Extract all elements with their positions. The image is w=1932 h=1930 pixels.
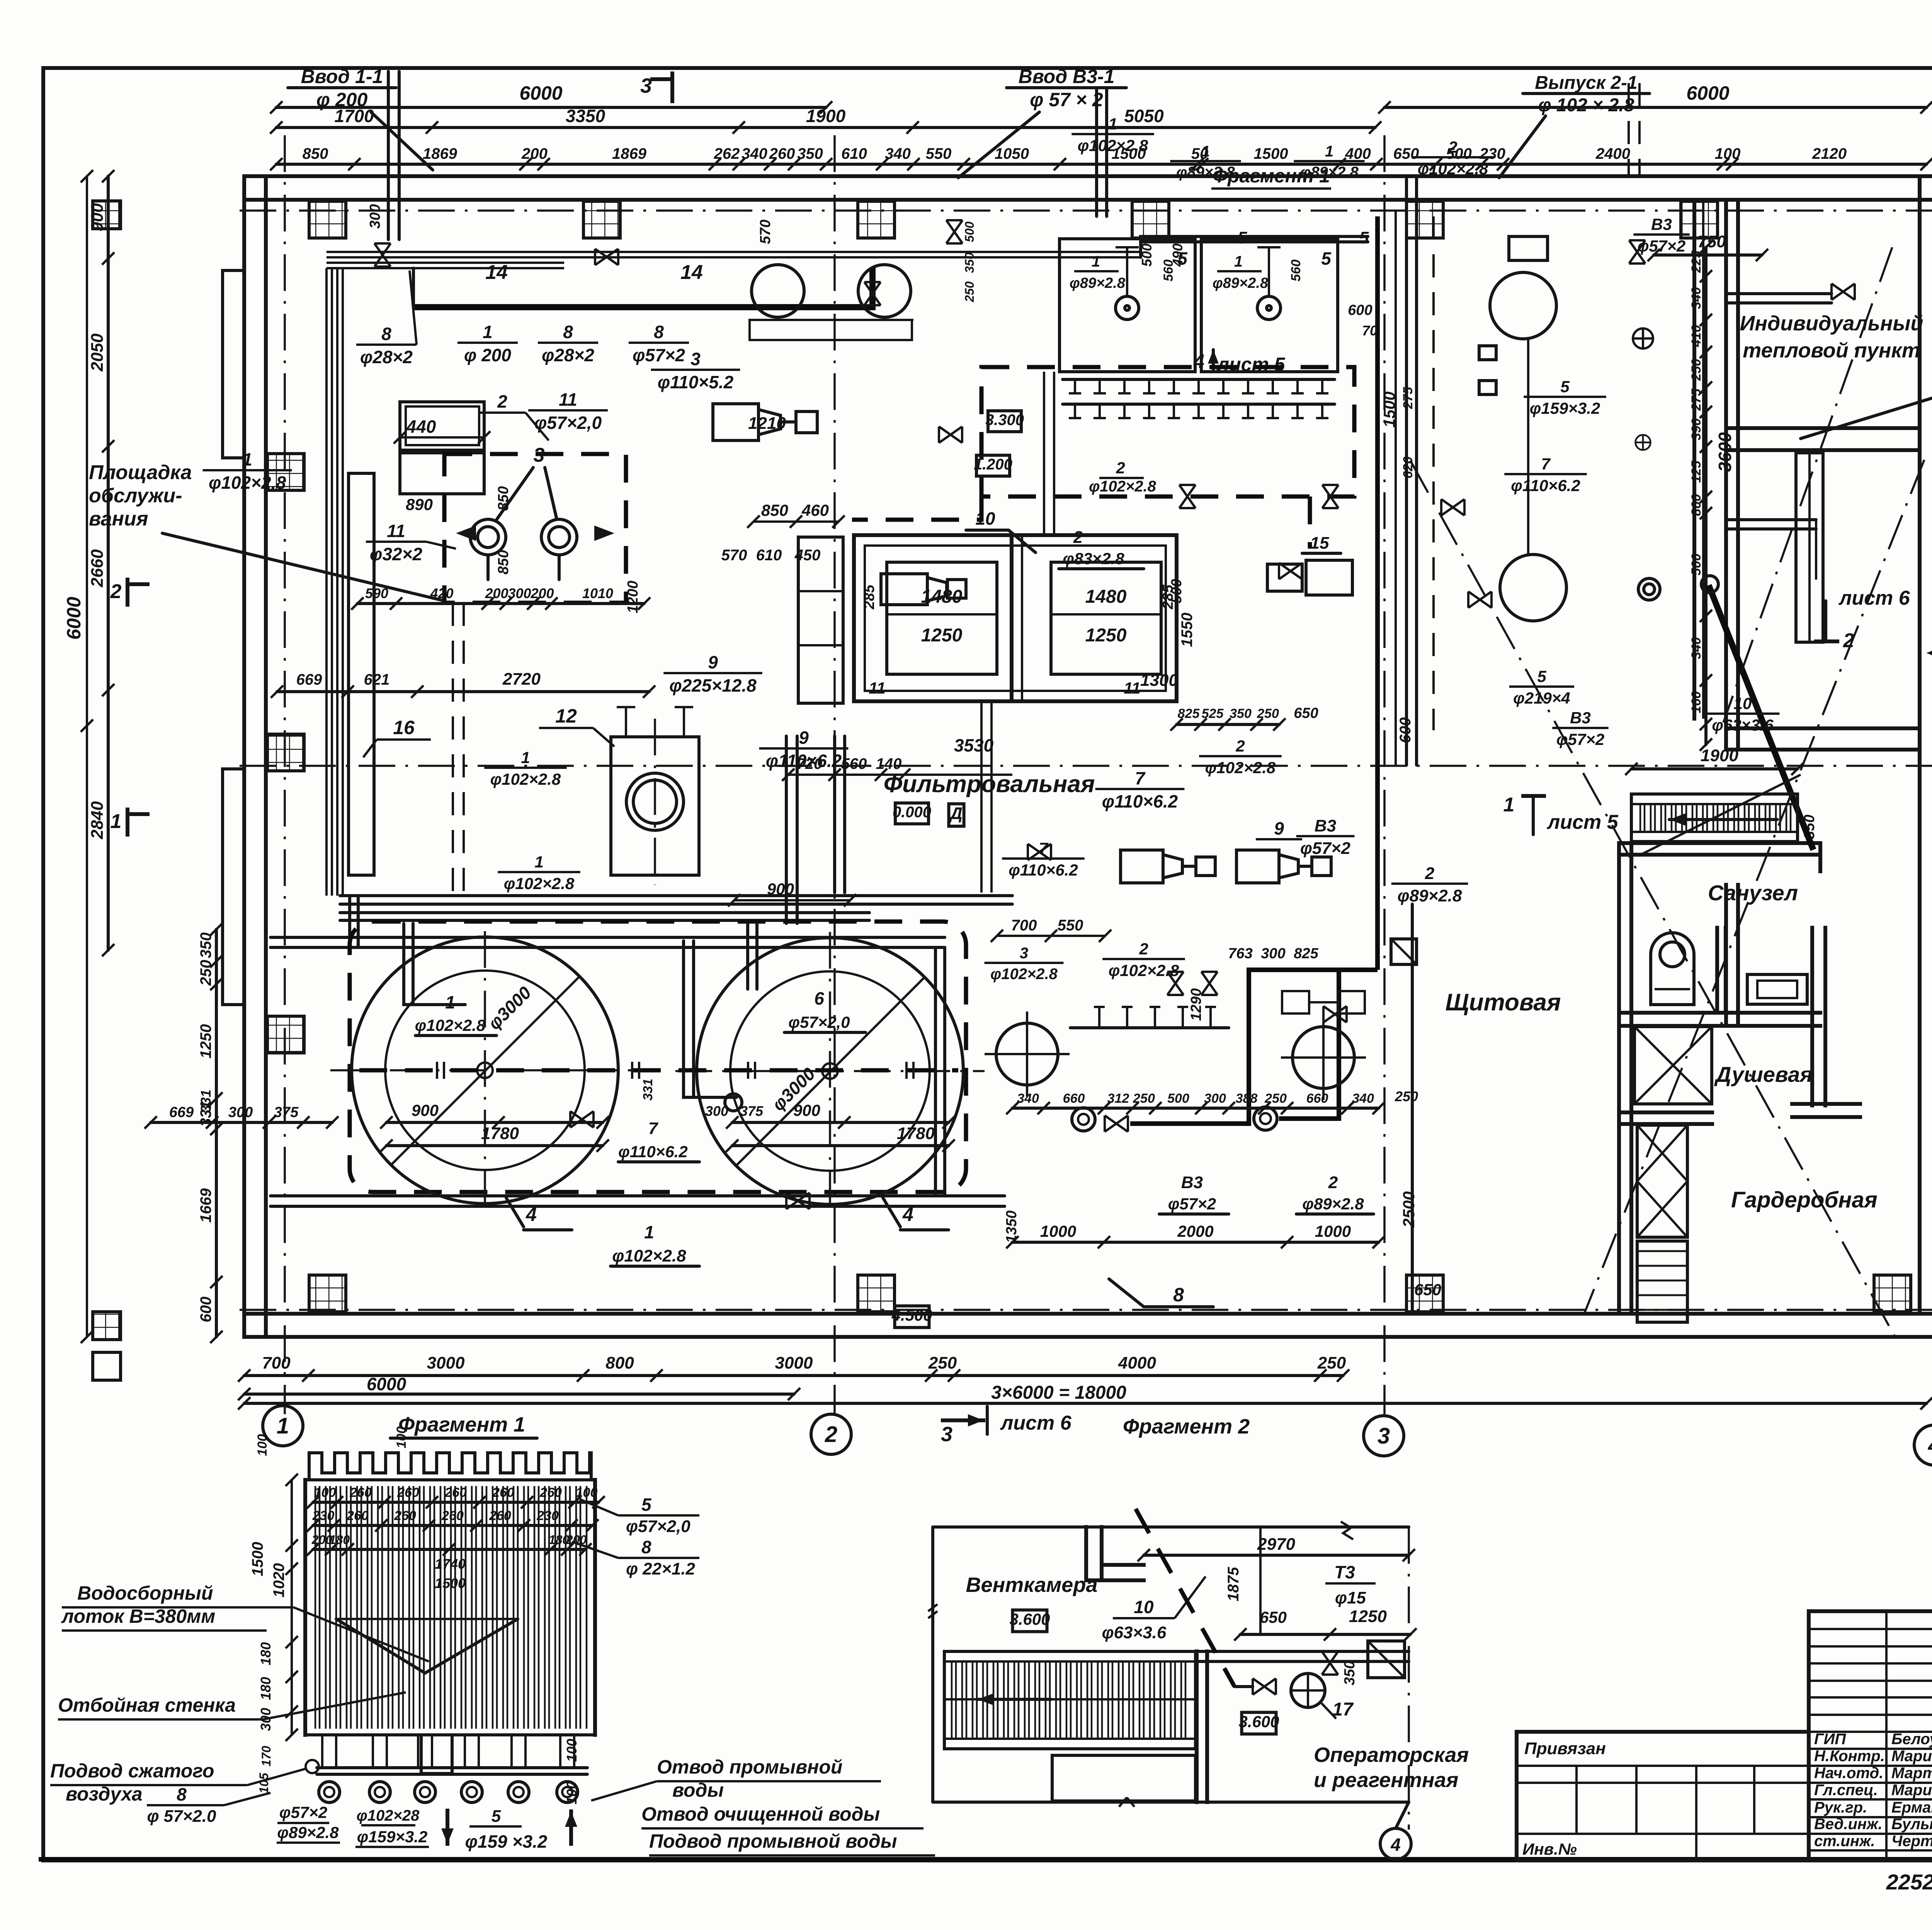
svg-text:φ159×3.2: φ159×3.2: [1530, 399, 1600, 417]
svg-text:669: 669: [169, 1104, 194, 1121]
svg-text:φ159×3.2: φ159×3.2: [357, 1828, 428, 1846]
svg-text:2000: 2000: [1177, 1222, 1213, 1240]
svg-text:22529-02: 22529-02: [1886, 1870, 1932, 1894]
svg-text:340: 340: [1352, 1091, 1374, 1106]
svg-text:5: 5: [1537, 667, 1546, 685]
svg-text:Д: Д: [949, 804, 963, 823]
svg-text:1669: 1669: [197, 1188, 214, 1223]
svg-text:5: 5: [1560, 377, 1570, 396]
svg-text:10: 10: [1134, 1597, 1154, 1617]
svg-text:Ввод 1-1: Ввод 1-1: [301, 66, 383, 87]
svg-text:φ83×2.8: φ83×2.8: [1063, 549, 1124, 568]
svg-text:1: 1: [445, 992, 455, 1012]
svg-text:5050: 5050: [1124, 106, 1164, 126]
svg-text:1550: 1550: [1179, 613, 1196, 647]
svg-text:410: 410: [1689, 325, 1704, 347]
svg-text:260: 260: [444, 1485, 467, 1500]
svg-text:8: 8: [563, 322, 573, 342]
svg-text:φ102×2.8: φ102×2.8: [209, 473, 286, 493]
svg-text:180: 180: [329, 1533, 350, 1547]
svg-text:650: 650: [1260, 1608, 1287, 1626]
svg-text:φ159 ×3.2: φ159 ×3.2: [465, 1831, 548, 1852]
svg-text:Н.Контр.: Н.Контр.: [1814, 1748, 1885, 1765]
svg-text:Душевая: Душевая: [1714, 1062, 1813, 1087]
svg-text:7: 7: [1541, 455, 1551, 473]
svg-text:650: 650: [1414, 1280, 1441, 1299]
svg-text:φ102×2.8: φ102×2.8: [1089, 478, 1156, 495]
svg-text:Отвод очищенной воды: Отвод очищенной воды: [641, 1803, 880, 1825]
svg-text:и реагентная: и реагентная: [1314, 1768, 1458, 1792]
svg-text:11: 11: [869, 679, 886, 697]
svg-text:100: 100: [564, 1781, 580, 1804]
svg-text:Ввод В3-1: Ввод В3-1: [1019, 66, 1115, 87]
svg-text:610: 610: [841, 145, 867, 162]
svg-text:70: 70: [1362, 323, 1378, 338]
svg-text:100: 100: [1715, 145, 1741, 162]
svg-text:5: 5: [641, 1495, 652, 1515]
svg-text:3530: 3530: [954, 735, 994, 755]
svg-text:Операторская: Операторская: [1314, 1743, 1469, 1767]
svg-text:590: 590: [365, 585, 388, 601]
svg-text:φ225×12.8: φ225×12.8: [669, 675, 757, 695]
svg-text:262: 262: [714, 145, 740, 162]
svg-text:лист 6: лист 6: [1000, 1412, 1072, 1434]
svg-text:200: 200: [530, 585, 554, 601]
svg-text:Белоус: Белоус: [1891, 1731, 1932, 1748]
svg-text:1500: 1500: [1254, 145, 1288, 162]
svg-text:230: 230: [312, 1508, 335, 1523]
svg-text:φ110×5.2: φ110×5.2: [658, 372, 734, 392]
svg-text:2970: 2970: [1257, 1535, 1295, 1554]
svg-text:φ28×2: φ28×2: [360, 347, 413, 367]
svg-text:560: 560: [1289, 260, 1303, 282]
svg-text:Отбойная стенка: Отбойная стенка: [58, 1694, 236, 1716]
svg-text:260: 260: [394, 1508, 416, 1523]
svg-text:7: 7: [648, 1119, 659, 1138]
svg-text:600: 600: [1348, 302, 1372, 318]
svg-text:φ57×2: φ57×2: [1300, 839, 1351, 858]
svg-text:300: 300: [367, 204, 383, 228]
svg-text:1: 1: [277, 1413, 289, 1439]
svg-text:1210: 1210: [748, 414, 786, 433]
svg-text:500: 500: [1689, 554, 1704, 576]
svg-text:3350: 3350: [566, 106, 605, 126]
svg-text:525: 525: [1202, 706, 1224, 721]
svg-text:воды: воды: [672, 1779, 724, 1801]
svg-text:180: 180: [258, 1642, 274, 1665]
svg-text:331: 331: [641, 1079, 655, 1101]
svg-text:1480: 1480: [1085, 587, 1127, 607]
svg-text:3.300: 3.300: [985, 412, 1024, 429]
svg-text:6: 6: [814, 988, 824, 1008]
svg-text:ст.инж.: ст.инж.: [1814, 1833, 1875, 1850]
svg-text:φ 102 × 2.8: φ 102 × 2.8: [1538, 95, 1634, 116]
svg-text:340: 340: [885, 145, 911, 162]
svg-text:250: 250: [928, 1354, 957, 1372]
svg-text:720: 720: [797, 755, 823, 772]
svg-text:8: 8: [641, 1537, 651, 1557]
svg-text:φ57×2: φ57×2: [1168, 1195, 1216, 1213]
svg-text:вания: вания: [89, 508, 148, 530]
svg-text:800: 800: [605, 1354, 634, 1372]
svg-text:6000: 6000: [519, 82, 562, 104]
svg-text:890: 890: [406, 495, 433, 514]
svg-text:Ермакова: Ермакова: [1891, 1799, 1932, 1816]
svg-text:2660: 2660: [88, 549, 107, 587]
svg-text:4.500: 4.500: [891, 1306, 932, 1324]
svg-text:2: 2: [1116, 459, 1125, 477]
svg-text:2: 2: [1235, 737, 1245, 755]
svg-text:8: 8: [381, 324, 391, 344]
svg-text:Подвод сжатого: Подвод сжатого: [50, 1760, 214, 1782]
svg-text:100: 100: [564, 1739, 580, 1762]
svg-text:φ15: φ15: [1335, 1588, 1366, 1607]
svg-text:300: 300: [228, 1104, 253, 1121]
svg-text:1250: 1250: [1349, 1607, 1387, 1626]
svg-text:5: 5: [1238, 228, 1247, 247]
svg-text:φ32×2: φ32×2: [370, 544, 422, 564]
svg-text:610: 610: [756, 547, 782, 564]
svg-text:850: 850: [495, 486, 512, 510]
svg-text:500: 500: [1167, 1091, 1189, 1106]
svg-text:3: 3: [1378, 1423, 1390, 1449]
svg-text:1: 1: [1092, 253, 1100, 270]
svg-text:4: 4: [902, 1204, 913, 1225]
svg-text:лист 6: лист 6: [1838, 587, 1910, 609]
svg-text:7: 7: [1135, 768, 1146, 788]
svg-text:3: 3: [640, 74, 652, 97]
svg-text:260: 260: [539, 1485, 562, 1500]
svg-text:лоток В=380мм: лоток В=380мм: [61, 1605, 215, 1627]
svg-text:650: 650: [1294, 705, 1318, 721]
svg-text:275: 275: [1689, 388, 1704, 411]
svg-text:Отвод промывной: Отвод промывной: [657, 1756, 842, 1778]
svg-text:1: 1: [242, 449, 252, 469]
svg-text:φ57×2: φ57×2: [633, 345, 685, 365]
svg-text:1: 1: [483, 322, 493, 342]
svg-text:В3: В3: [1651, 215, 1672, 233]
svg-text:900: 900: [767, 880, 794, 898]
svg-text:1: 1: [644, 1222, 654, 1242]
svg-text:440: 440: [406, 417, 436, 437]
svg-text:260: 260: [441, 1508, 464, 1523]
svg-text:φ102×2.8: φ102×2.8: [490, 770, 561, 788]
svg-text:15: 15: [1310, 534, 1329, 553]
svg-text:6000: 6000: [63, 597, 85, 639]
svg-text:8: 8: [654, 322, 664, 342]
svg-text:φ89×2.8: φ89×2.8: [1300, 164, 1359, 181]
svg-text:обслужи-: обслужи-: [89, 485, 182, 507]
svg-text:Т3: Т3: [1334, 1562, 1355, 1582]
svg-text:3: 3: [941, 1423, 952, 1446]
svg-text:800: 800: [1689, 494, 1704, 516]
svg-text:φ 22×1.2: φ 22×1.2: [626, 1559, 696, 1578]
svg-text:1: 1: [534, 853, 543, 871]
svg-text:331: 331: [198, 1090, 214, 1113]
svg-text:φ219×4: φ219×4: [1513, 689, 1570, 707]
svg-text:4: 4: [1390, 1835, 1401, 1855]
svg-text:180: 180: [258, 1677, 274, 1700]
svg-text:250: 250: [1317, 1354, 1346, 1372]
svg-text:1480: 1480: [921, 587, 963, 607]
svg-text:6000: 6000: [367, 1374, 406, 1394]
svg-text:669: 669: [296, 671, 322, 688]
svg-text:700: 700: [262, 1354, 291, 1372]
svg-text:1: 1: [1325, 143, 1333, 160]
svg-text:φ 57 × 2: φ 57 × 2: [1030, 89, 1103, 111]
svg-text:825: 825: [1294, 945, 1318, 962]
svg-text:Фрагмент 2: Фрагмент 2: [1123, 1415, 1250, 1438]
svg-text:5: 5: [492, 1807, 501, 1826]
svg-text:1869: 1869: [423, 145, 457, 162]
svg-text:11: 11: [559, 389, 577, 410]
svg-text:550: 550: [1058, 917, 1083, 934]
svg-text:4000: 4000: [1118, 1354, 1156, 1372]
svg-text:3: 3: [534, 444, 545, 466]
svg-text:φ110×6.2: φ110×6.2: [1102, 791, 1178, 811]
svg-text:φ63×3.6: φ63×3.6: [1712, 716, 1774, 734]
svg-text:В3: В3: [1181, 1173, 1203, 1192]
svg-text:1: 1: [521, 748, 530, 767]
svg-text:500: 500: [963, 221, 976, 242]
svg-text:1500: 1500: [435, 1575, 466, 1591]
svg-text:3.600: 3.600: [1238, 1712, 1279, 1731]
svg-text:5: 5: [1177, 248, 1188, 269]
svg-text:100: 100: [255, 1434, 270, 1456]
svg-text:φ89×2.8: φ89×2.8: [1398, 886, 1462, 905]
svg-text:φ102×2.8: φ102×2.8: [1109, 961, 1179, 979]
svg-text:300: 300: [1261, 945, 1285, 962]
svg-text:φ102×2.8: φ102×2.8: [1418, 160, 1488, 178]
svg-text:300: 300: [705, 1103, 728, 1119]
svg-text:1350: 1350: [1003, 1211, 1020, 1243]
svg-text:1875: 1875: [1225, 1567, 1242, 1602]
svg-text:φ102×2.8: φ102×2.8: [504, 874, 575, 893]
svg-text:570: 570: [721, 547, 747, 564]
svg-text:2720: 2720: [502, 670, 541, 689]
svg-text:230: 230: [536, 1508, 559, 1523]
svg-text:Индивидуальный: Индивидуальный: [1740, 312, 1923, 335]
svg-text:Мартынов: Мартынов: [1891, 1765, 1932, 1782]
svg-text:1290: 1290: [1188, 988, 1204, 1021]
svg-text:260: 260: [397, 1485, 419, 1500]
svg-text:4: 4: [526, 1204, 537, 1225]
svg-text:100: 100: [576, 1485, 598, 1500]
svg-text:2: 2: [1328, 1173, 1338, 1192]
svg-text:2840: 2840: [88, 801, 107, 839]
svg-text:2: 2: [1448, 138, 1457, 156]
svg-text:350: 350: [963, 252, 976, 273]
svg-text:Гл.спец.: Гл.спец.: [1814, 1782, 1878, 1799]
svg-text:Выпуск 2-1: Выпуск 2-1: [1535, 73, 1637, 93]
svg-text:φ102×2.8: φ102×2.8: [612, 1246, 686, 1265]
svg-text:Привязан: Привязан: [1524, 1739, 1606, 1758]
svg-text:φ57×2,0: φ57×2,0: [534, 413, 602, 433]
svg-text:100: 100: [394, 1427, 409, 1449]
svg-text:2: 2: [497, 391, 507, 412]
svg-text:Фрагмент 1: Фрагмент 1: [398, 1413, 525, 1436]
svg-text:1700: 1700: [334, 106, 374, 126]
svg-text:850: 850: [761, 501, 788, 519]
svg-text:340: 340: [1017, 1091, 1039, 1106]
svg-text:1: 1: [1503, 794, 1515, 816]
svg-text:6000: 6000: [1686, 82, 1729, 104]
svg-text:388: 388: [1236, 1091, 1258, 1106]
svg-text:340: 340: [742, 145, 767, 162]
svg-text:2: 2: [110, 580, 122, 603]
svg-text:600: 600: [197, 1297, 214, 1323]
svg-text:Булычева: Булычева: [1891, 1816, 1932, 1833]
svg-text:φ57×2: φ57×2: [279, 1803, 327, 1821]
svg-text:1780: 1780: [897, 1124, 935, 1143]
svg-text:16: 16: [393, 717, 415, 738]
svg-text:3: 3: [690, 349, 701, 369]
svg-text:350: 350: [1342, 1661, 1358, 1685]
svg-text:Щитовая: Щитовая: [1446, 989, 1561, 1016]
svg-text:2500: 2500: [1400, 1191, 1418, 1228]
svg-text:2050: 2050: [88, 333, 107, 372]
svg-text:φ102×2.8: φ102×2.8: [1205, 758, 1276, 777]
svg-text:1250: 1250: [1085, 625, 1127, 646]
svg-text:В3: В3: [1315, 816, 1336, 835]
svg-text:14: 14: [485, 261, 508, 284]
svg-text:650: 650: [1393, 145, 1419, 162]
svg-text:620: 620: [1401, 457, 1415, 479]
svg-text:260: 260: [492, 1485, 514, 1500]
svg-text:0.000: 0.000: [893, 804, 931, 821]
svg-text:2120: 2120: [1812, 145, 1847, 162]
svg-text:Подвод промывной воды: Подвод промывной воды: [649, 1830, 897, 1852]
svg-text:Вед.инж.: Вед.инж.: [1814, 1816, 1883, 1833]
svg-text:5: 5: [1321, 248, 1332, 269]
svg-text:390: 390: [1689, 418, 1704, 440]
svg-text:φ57×2: φ57×2: [1556, 730, 1604, 748]
svg-text:φ 200: φ 200: [464, 345, 511, 365]
svg-text:φ102×28: φ102×28: [357, 1807, 420, 1824]
svg-text:1: 1: [1201, 143, 1210, 160]
svg-text:420: 420: [430, 585, 453, 601]
svg-text:φ 57×2.0: φ 57×2.0: [147, 1807, 217, 1826]
svg-text:300: 300: [1204, 1091, 1226, 1106]
svg-text:2400: 2400: [1595, 145, 1630, 162]
svg-text:11: 11: [1124, 679, 1141, 697]
svg-text:1020: 1020: [270, 1563, 287, 1598]
svg-text:285: 285: [861, 584, 878, 609]
svg-text:1500: 1500: [249, 1542, 266, 1576]
svg-text:φ57×2,0: φ57×2,0: [626, 1517, 690, 1536]
svg-text:φ102×2.8: φ102×2.8: [415, 1016, 486, 1034]
svg-text:1050: 1050: [995, 145, 1029, 162]
svg-text:Нач.отд.: Нач.отд.: [1814, 1765, 1883, 1782]
svg-text:Водосборный: Водосборный: [77, 1582, 213, 1604]
svg-text:825: 825: [1178, 706, 1200, 721]
svg-text:2: 2: [1139, 940, 1148, 958]
svg-text:5: 5: [1359, 228, 1369, 247]
svg-text:ГИП: ГИП: [1814, 1731, 1846, 1748]
svg-text:9: 9: [708, 652, 718, 672]
svg-text:1900: 1900: [806, 106, 846, 126]
svg-text:11: 11: [387, 521, 405, 541]
svg-text:10: 10: [1734, 694, 1752, 712]
svg-text:3: 3: [1020, 945, 1028, 962]
svg-text:φ110×6.2: φ110×6.2: [1009, 861, 1078, 879]
svg-text:Инв.№: Инв.№: [1522, 1840, 1577, 1858]
svg-text:Марионков: Марионков: [1891, 1748, 1932, 1765]
svg-text:φ57×2,0: φ57×2,0: [788, 1013, 850, 1031]
svg-text:2: 2: [1425, 864, 1435, 883]
svg-text:1300: 1300: [1140, 671, 1178, 690]
svg-text:В3: В3: [1570, 709, 1591, 727]
svg-text:φ63×3.6: φ63×3.6: [1102, 1623, 1167, 1642]
svg-text:3×6000 = 18000: 3×6000 = 18000: [991, 1382, 1126, 1403]
svg-text:φ102×2.8: φ102×2.8: [990, 966, 1058, 983]
svg-text:1000: 1000: [1315, 1222, 1351, 1240]
svg-text:160: 160: [1689, 691, 1704, 713]
svg-text:460: 460: [801, 501, 829, 519]
svg-text:φ110×6.2: φ110×6.2: [618, 1143, 687, 1161]
svg-text:φ89×2.8: φ89×2.8: [1213, 275, 1269, 291]
svg-text:воздуха: воздуха: [66, 1783, 143, 1805]
svg-text:560: 560: [1161, 260, 1176, 282]
svg-text:250: 250: [1264, 1091, 1287, 1106]
svg-text:1740: 1740: [435, 1556, 466, 1572]
svg-text:260: 260: [489, 1508, 511, 1523]
svg-text:лист 5: лист 5: [1546, 811, 1619, 833]
svg-text:621: 621: [364, 671, 390, 688]
svg-text:500: 500: [1168, 579, 1185, 603]
svg-text:1010: 1010: [582, 585, 613, 601]
svg-text:тепловой пункт: тепловой пункт: [1743, 339, 1920, 362]
svg-text:250: 250: [1689, 359, 1704, 381]
svg-text:1900: 1900: [1701, 746, 1738, 765]
svg-text:350: 350: [797, 145, 823, 162]
svg-text:9: 9: [1274, 818, 1284, 838]
svg-text:1: 1: [111, 810, 122, 833]
svg-text:200: 200: [485, 585, 508, 601]
svg-text:250: 250: [963, 281, 976, 303]
svg-text:Площадка: Площадка: [89, 461, 192, 484]
svg-text:375: 375: [274, 1104, 299, 1121]
svg-text:260: 260: [769, 145, 795, 162]
svg-text:260: 260: [349, 1485, 372, 1500]
svg-text:125: 125: [1689, 461, 1704, 483]
svg-text:2: 2: [1073, 528, 1083, 547]
svg-text:450: 450: [794, 547, 821, 564]
svg-text:900: 900: [412, 1101, 439, 1119]
svg-text:550: 550: [926, 145, 952, 162]
svg-text:200: 200: [521, 145, 548, 162]
svg-text:12: 12: [555, 705, 577, 727]
svg-text:375: 375: [740, 1103, 764, 1119]
svg-text:763: 763: [1228, 945, 1252, 962]
svg-text:260: 260: [346, 1508, 369, 1523]
svg-text:350: 350: [197, 932, 214, 958]
svg-text:225: 225: [1689, 250, 1704, 273]
svg-text:340: 340: [1689, 287, 1704, 309]
svg-text:350: 350: [1230, 706, 1252, 721]
svg-text:300: 300: [508, 585, 531, 601]
svg-text:Рук.гр.: Рук.гр.: [1814, 1799, 1867, 1816]
svg-text:700: 700: [1011, 917, 1037, 934]
svg-text:340: 340: [1689, 637, 1704, 659]
svg-text:100: 100: [314, 1485, 336, 1500]
svg-text:φ110×6.2: φ110×6.2: [1511, 476, 1580, 495]
svg-text:1780: 1780: [481, 1124, 519, 1143]
svg-text:660: 660: [1063, 1091, 1085, 1106]
svg-text:3000: 3000: [427, 1354, 465, 1372]
svg-text:1250: 1250: [921, 625, 963, 646]
svg-text:250: 250: [197, 960, 214, 986]
